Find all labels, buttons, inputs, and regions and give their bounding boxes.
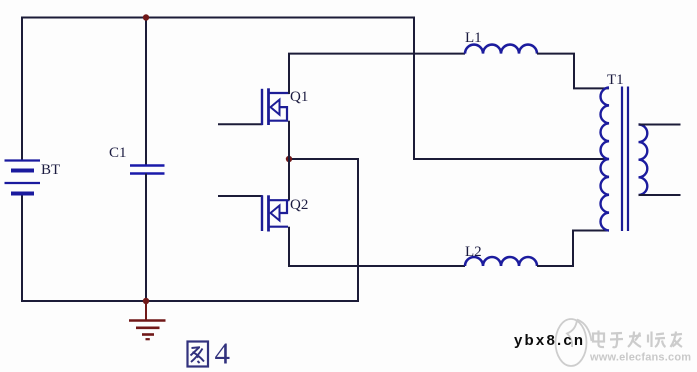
- channel bar: [267, 88, 270, 125]
- wire bottom rail: [21, 300, 358, 302]
- 发: [629, 336, 641, 337]
- gate bar: [261, 89, 263, 125]
- source stub: [269, 120, 289, 122]
- node bottom junction dot: [143, 298, 149, 304]
- svg-text:L1: L1: [465, 30, 482, 46]
- capacitor C1: [130, 166, 165, 174]
- inductor L2: [465, 257, 537, 266]
- svg-text:C1: C1: [109, 145, 127, 161]
- transistor Q1: [218, 88, 290, 125]
- wire secondary bottom lead: [639, 194, 681, 196]
- transistor Q2: [218, 195, 290, 231]
- wire midpoint vertical down to bottom rail: [357, 159, 359, 302]
- 子: [611, 332, 622, 335]
- wire Q1 drain to L1: [288, 53, 465, 55]
- wire top rail: [22, 17, 414, 19]
- body line to source: [280, 107, 288, 121]
- drain stub: [269, 92, 290, 94]
- 电: [593, 334, 604, 342]
- watermark elecfans logo: [556, 319, 592, 366]
- gate lead: [218, 195, 263, 197]
- svg-text:L2: L2: [465, 244, 482, 260]
- svg-text:Q1: Q1: [290, 89, 308, 105]
- wire Q2 to L2: [288, 265, 465, 267]
- battery BT: [5, 161, 41, 194]
- 友: [671, 334, 682, 335]
- transformer T1 core: [621, 87, 623, 232]
- capacitor C1 top lead: [145, 18, 147, 166]
- 烧: [647, 335, 649, 343]
- wire Q2 top lead to midpoint: [288, 159, 290, 200]
- wire Q2 bottom lead down: [288, 227, 290, 267]
- body arrow: [271, 100, 280, 115]
- wire right vertical from top rail down to center tap: [413, 17, 415, 160]
- inductor L1: [465, 45, 537, 54]
- wire center tap horizontal to transformer: [413, 158, 609, 160]
- body arrow: [271, 206, 280, 221]
- svg-text:www.elecfans.com: www.elecfans.com: [589, 352, 691, 364]
- svg-text:Q2: Q2: [290, 197, 308, 213]
- transformer T1 secondary winding: [639, 125, 648, 195]
- svg-text:ybx8.cn: ybx8.cn: [514, 332, 585, 349]
- svg-text:BT: BT: [41, 162, 60, 178]
- gate bar: [261, 195, 263, 231]
- label 图4 (figure 4): [188, 342, 209, 367]
- svg-text:4: 4: [215, 336, 231, 371]
- wire L2 to transformer bottom: [537, 231, 609, 267]
- node top junction dot: [143, 14, 149, 20]
- svg-text:T1: T1: [607, 72, 624, 88]
- ground: [129, 301, 166, 339]
- channel bar: [267, 195, 270, 231]
- wire Q1 source lead down to midpoint: [288, 121, 290, 159]
- watermark 电子发烧友 (gray): [593, 331, 682, 348]
- transformer T1 primary winding: [601, 88, 609, 231]
- wire secondary top lead: [639, 124, 681, 126]
- node midpoint junction dot: [286, 156, 292, 162]
- drain stub bottom: [269, 226, 289, 228]
- wire midpoint horizontal: [289, 158, 359, 160]
- capacitor C1 bottom lead: [145, 174, 147, 303]
- gate lead: [218, 123, 263, 125]
- wire Q1 drain lead up: [288, 54, 290, 94]
- source stub top: [269, 199, 290, 201]
- wire L1 to transformer top: [537, 54, 609, 89]
- wire battery top lead: [21, 17, 23, 162]
- body line to top stub: [280, 200, 288, 213]
- wire battery bottom lead: [21, 194, 23, 302]
